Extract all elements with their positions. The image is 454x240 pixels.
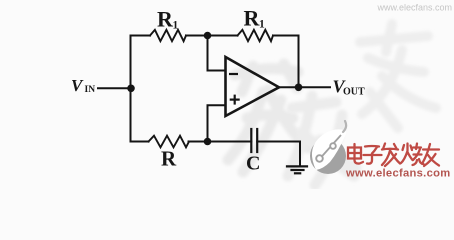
red watermark text 电子发烧友 (stylized strokes) — [348, 144, 439, 167]
faint large watermark character 2 — [288, 96, 356, 185]
label Vin — [71, 76, 95, 95]
elecfans logo leaf — [312, 129, 346, 170]
op-amp U1 triangle — [226, 57, 280, 116]
svg-text:C: C — [246, 153, 260, 175]
svg-text:www.elecfans.com: www.elecfans.com — [345, 168, 451, 180]
svg-text:OUT: OUT — [343, 87, 365, 98]
resistor R1 (second) — [238, 30, 274, 41]
wire bottom rail left — [131, 141, 149, 143]
wire between R1s — [186, 35, 238, 37]
wire top rail right — [273, 35, 299, 37]
elecfans logo stem curl — [343, 121, 346, 132]
label Vout — [333, 77, 366, 98]
label R1 (first) — [157, 7, 179, 32]
svg-text:www.elecfans.com: www.elecfans.com — [376, 3, 452, 13]
elecfans logo pad 2 — [330, 143, 336, 149]
char 发 — [382, 144, 400, 167]
elecfans logo disc — [310, 138, 346, 174]
ground stem — [299, 142, 301, 166]
svg-text:IN: IN — [85, 85, 96, 95]
node dot output — [295, 84, 303, 92]
ground bar 1 — [287, 165, 307, 167]
op-amp plus sign — [230, 95, 240, 105]
elecfans logo trace line — [320, 135, 341, 159]
wire bottom rail middle — [189, 141, 252, 143]
wire op-amp output — [279, 86, 330, 88]
char 电 — [348, 144, 363, 164]
svg-text:V: V — [71, 76, 84, 95]
char 烧 — [401, 144, 424, 166]
op-amp minus sign — [229, 73, 238, 75]
node dot Vin — [127, 85, 135, 93]
ground bar 3 — [295, 172, 300, 174]
faint large watermark character 3 — [360, 24, 436, 128]
wire Vin to node — [98, 87, 131, 89]
resistor R1 (first) — [150, 30, 186, 41]
svg-text:R: R — [157, 7, 174, 32]
wire non-inverting input riser — [208, 105, 226, 141]
elecfans logo pad 1 — [316, 155, 323, 162]
capacitor C plate right — [256, 129, 258, 152]
label R1 (second) — [244, 6, 266, 31]
svg-text:1: 1 — [259, 19, 265, 31]
char 子 — [364, 146, 382, 164]
svg-text:R: R — [161, 147, 177, 171]
ground bar 2 — [292, 169, 304, 171]
wire top rail left — [131, 35, 151, 37]
svg-text:1: 1 — [173, 20, 179, 32]
faint large watermark character 1 — [228, 64, 308, 172]
capacitor C plate left — [250, 129, 252, 152]
node dot bottom junction — [204, 138, 212, 146]
wire left vertical — [130, 36, 132, 142]
char 友 — [423, 144, 440, 166]
wire feedback vertical — [298, 36, 300, 88]
wire inverting input drop — [208, 36, 226, 71]
resistor R — [149, 136, 190, 148]
svg-text:R: R — [244, 6, 261, 31]
wire capacitor to ground — [257, 141, 300, 143]
node dot top junction — [204, 32, 212, 40]
